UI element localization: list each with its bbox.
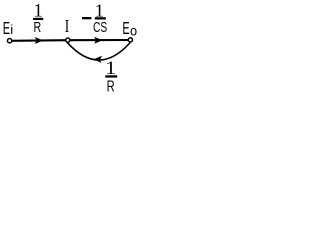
svg-text:o: o	[130, 23, 137, 39]
label -1/CS on branch I-Eo: minus sign	[82, 17, 91, 19]
wire I to Eo	[68, 39, 131, 41]
svg-text:R: R	[107, 78, 115, 95]
node I circle	[66, 38, 70, 42]
label Eo	[122, 20, 137, 39]
svg-text:R: R	[34, 18, 42, 35]
node Ei circle	[7, 39, 11, 43]
svg-text:E: E	[3, 20, 11, 39]
svg-text:I: I	[65, 17, 69, 36]
svg-text:i: i	[10, 22, 13, 37]
feedback arc from Eo to I (transmittance 1/R)	[67, 42, 130, 60]
arrowhead on branch 1/R (Ei to I)	[35, 37, 43, 44]
svg-text:CS: CS	[93, 18, 107, 36]
node Eo circle	[128, 38, 132, 42]
arrowhead on feedback arc	[94, 56, 102, 63]
label -1/CS: fraction bar	[95, 17, 106, 19]
label Ei	[3, 20, 13, 39]
wire Ei to I	[10, 39, 68, 42]
arrowhead on branch -1/CS (I to Eo)	[94, 37, 102, 44]
svg-text:E: E	[122, 20, 130, 39]
label 1/R on branch Ei-I: fraction bar	[33, 18, 43, 20]
label 1/R on feedback arc: fraction bar	[105, 75, 117, 77]
